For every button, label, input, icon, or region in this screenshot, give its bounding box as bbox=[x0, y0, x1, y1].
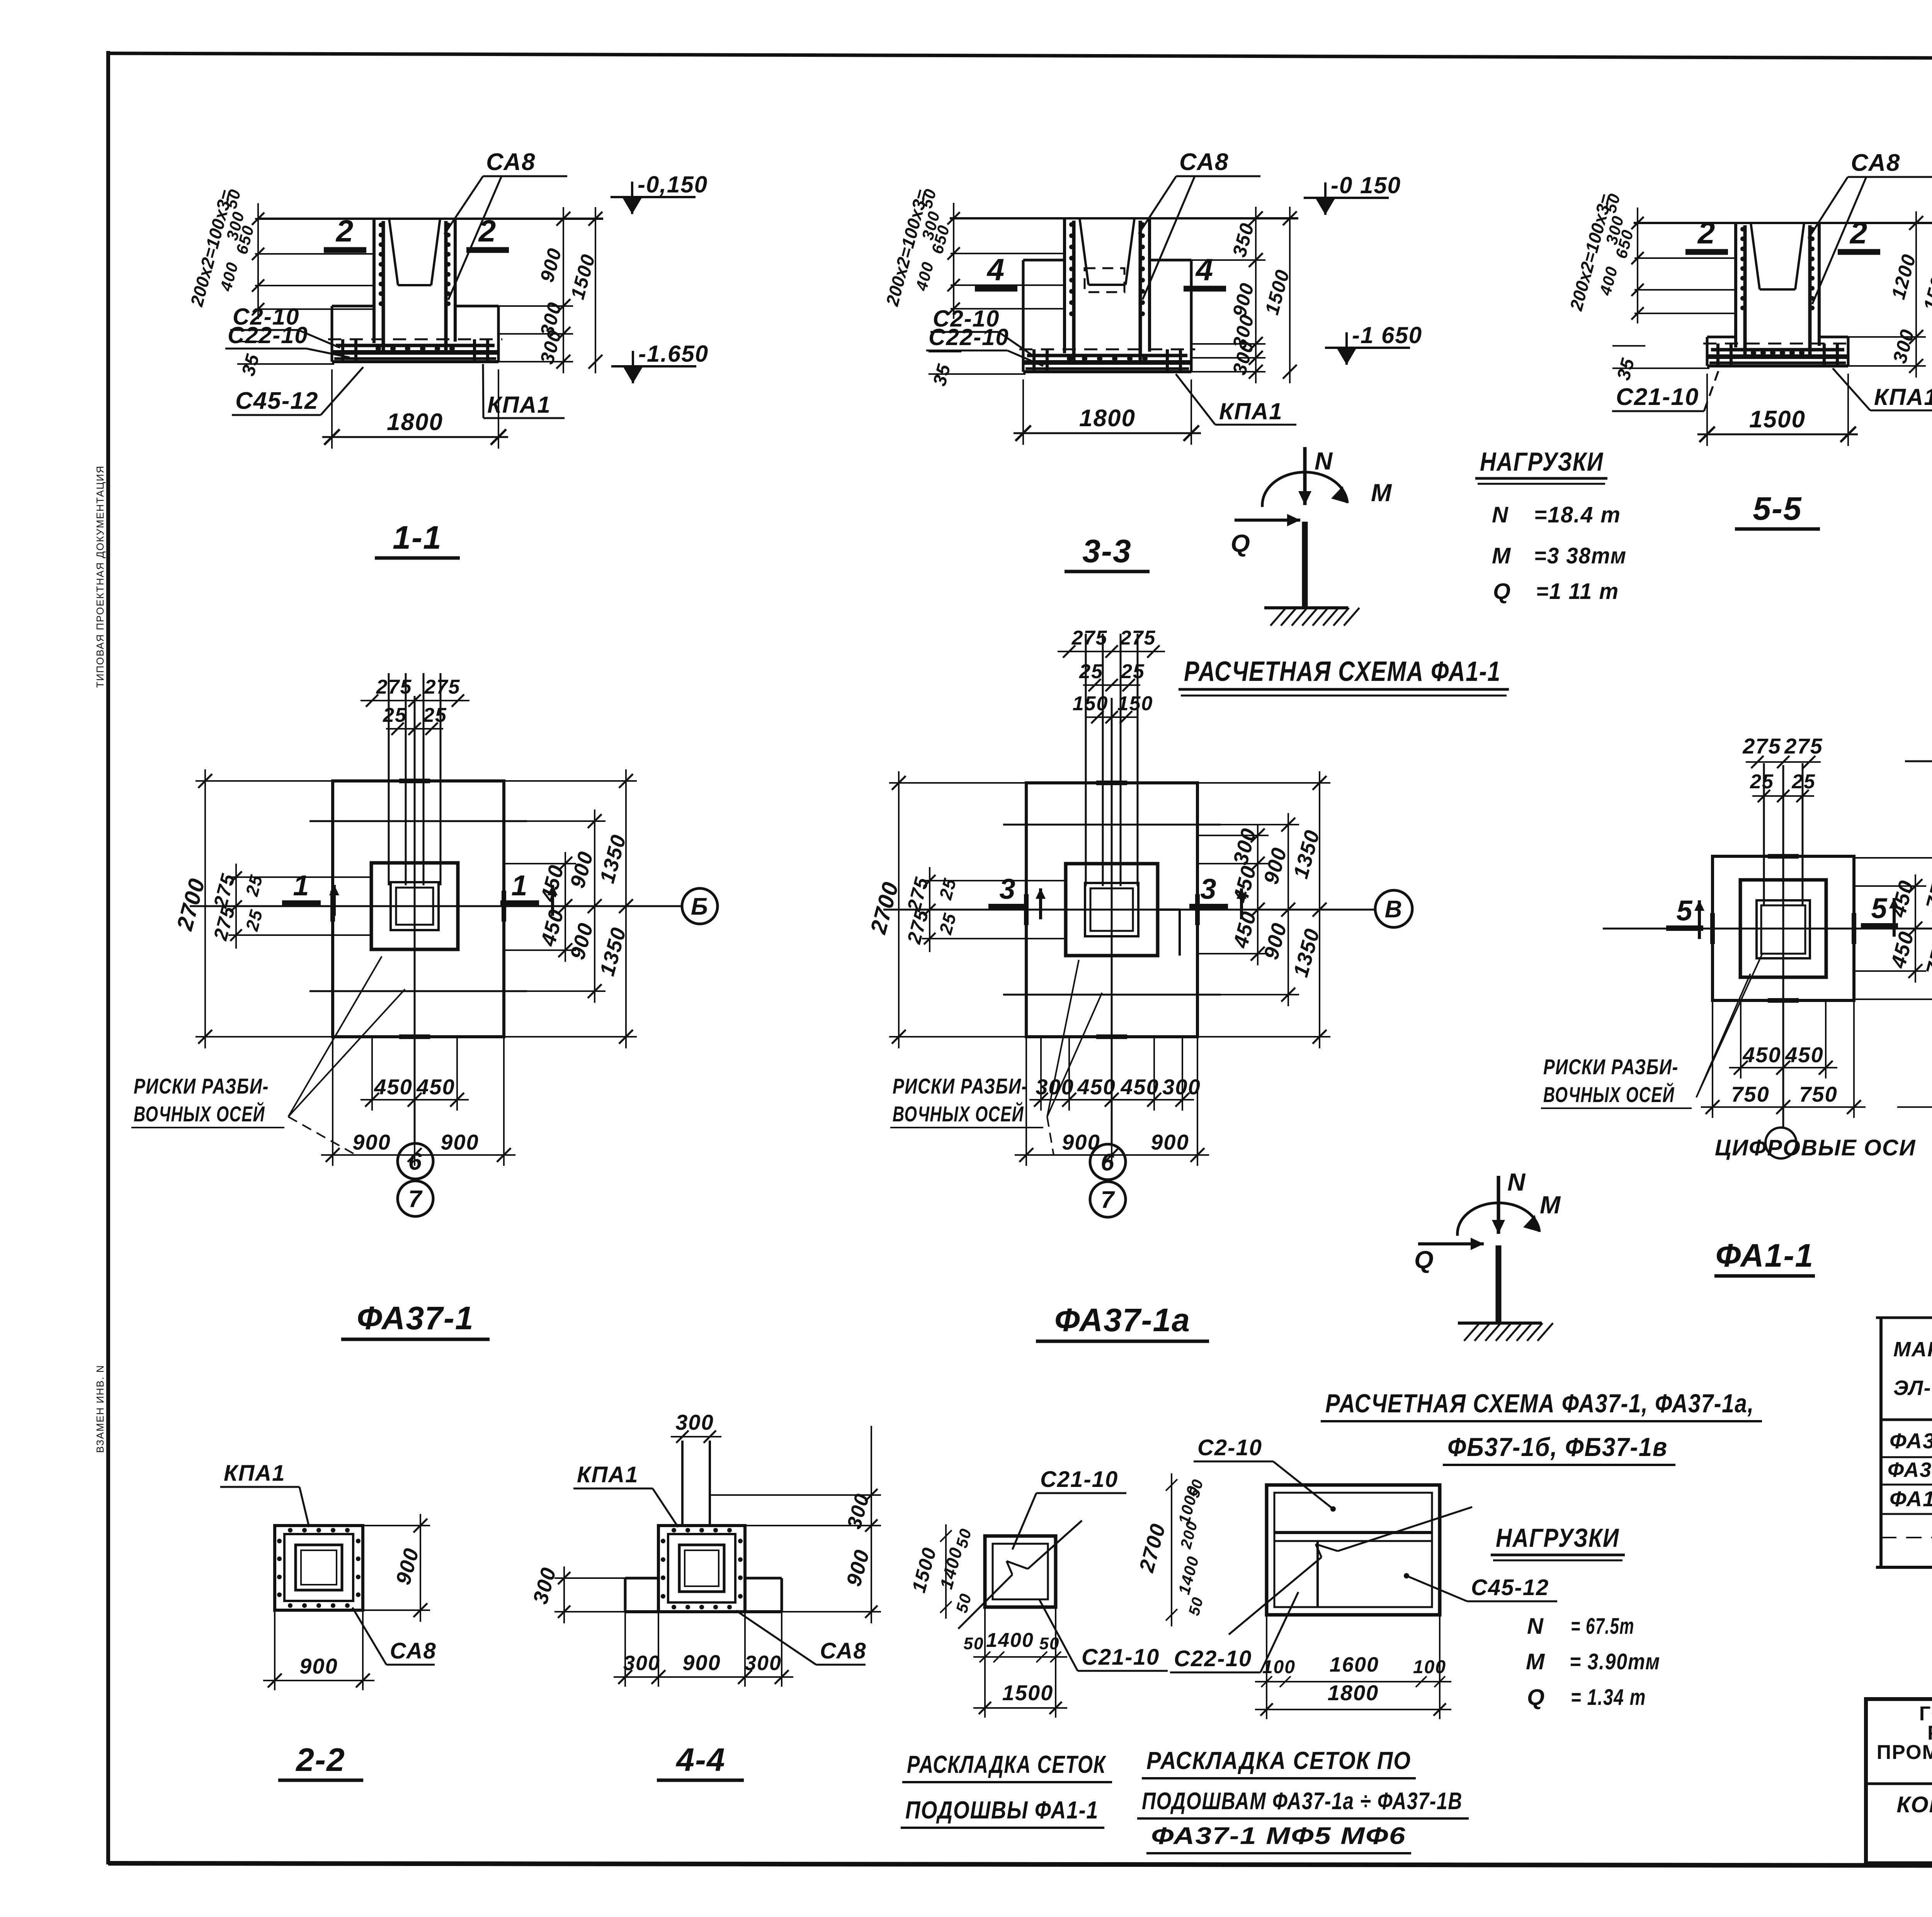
svg-text:1800: 1800 bbox=[1328, 1681, 1379, 1705]
break diagonal bbox=[1229, 1557, 1321, 1635]
overall 1500 chain bbox=[595, 207, 596, 373]
sheet frame left border bbox=[106, 51, 110, 1864]
svg-text:ФА1-1: ФА1-1 bbox=[1716, 1237, 1814, 1274]
sheet frame top border bbox=[108, 53, 1932, 60]
right dimension chain bbox=[563, 207, 564, 373]
svg-text:25: 25 bbox=[423, 704, 447, 726]
svg-text:3: 3 bbox=[1200, 873, 1217, 905]
svg-text:50: 50 bbox=[1039, 1634, 1060, 1653]
svg-text:-0 150: -0 150 bbox=[1331, 172, 1401, 198]
svg-text:-1.650: -1.650 bbox=[638, 341, 709, 367]
svg-text:300: 300 bbox=[1162, 1075, 1201, 1099]
расход data row lines bbox=[1881, 1456, 1932, 1458]
svg-text:900: 900 bbox=[682, 1650, 721, 1675]
svg-text:1600: 1600 bbox=[1330, 1653, 1379, 1676]
svg-text:N: N bbox=[1492, 502, 1509, 527]
svg-text:4-4: 4-4 bbox=[675, 1742, 725, 1778]
svg-text:РИСКИ РАЗБИ-: РИСКИ РАЗБИ- bbox=[134, 1074, 269, 1098]
socket squares bbox=[1085, 883, 1138, 936]
svg-text:1: 1 bbox=[511, 869, 528, 902]
svg-text:РАСЧЕТНАЯ СХЕМА ФА1-1: РАСЧЕТНАЯ СХЕМА ФА1-1 bbox=[1184, 656, 1501, 687]
overall 1500 chain bbox=[1289, 207, 1291, 383]
svg-text:900: 900 bbox=[1151, 1130, 1189, 1154]
left 2700 chain bbox=[898, 771, 900, 1048]
svg-text:ФБ37-1б, ФБ37-1в: ФБ37-1б, ФБ37-1в bbox=[1447, 1432, 1668, 1462]
axis letter circle bbox=[1375, 890, 1412, 927]
svg-text:ФА1-1: ФА1-1 bbox=[1889, 1487, 1932, 1511]
footing outline bbox=[332, 305, 374, 308]
svg-text:1500: 1500 bbox=[1002, 1681, 1054, 1705]
svg-text:1500: 1500 bbox=[1749, 406, 1806, 433]
left 275 dims bbox=[929, 867, 930, 952]
svg-text:-0,150: -0,150 bbox=[638, 172, 708, 197]
load diagram column bbox=[1302, 522, 1308, 608]
svg-text:РАСКЛАДКА СЕТОК: РАСКЛАДКА СЕТОК bbox=[907, 1750, 1106, 1778]
РАСКЛАДКА small square ФА1-1 bbox=[985, 1536, 1056, 1607]
svg-text:М: М bbox=[1492, 543, 1511, 568]
plan outer square bbox=[1713, 856, 1854, 1000]
svg-text:N: N bbox=[1527, 1614, 1544, 1639]
svg-text:ЭЛ-ТА: ЭЛ-ТА bbox=[1893, 1376, 1932, 1400]
anchor bars СА8 bbox=[1743, 225, 1747, 357]
bottom mats С2-10 С22-10 С45-12 bbox=[336, 344, 495, 347]
axis circle 6 bbox=[398, 1143, 433, 1179]
svg-text:25: 25 bbox=[1121, 660, 1145, 683]
svg-text:ФА37-1 МФ5 МФ6: ФА37-1 МФ5 МФ6 bbox=[1151, 1823, 1406, 1849]
axis circle 7 bbox=[1090, 1182, 1126, 1217]
top level line bbox=[259, 218, 603, 220]
svg-text:= 67.5т: = 67.5т bbox=[1571, 1614, 1634, 1639]
svg-text:=1 11 т: =1 11 т bbox=[1536, 579, 1619, 604]
расход table columns bbox=[1880, 1318, 1882, 1567]
3-3 dashed pocket bbox=[1085, 268, 1124, 292]
svg-text:С45-12: С45-12 bbox=[1471, 1575, 1549, 1600]
column outer walls bbox=[1734, 223, 1737, 347]
svg-text:КПА1: КПА1 bbox=[224, 1461, 286, 1486]
load diagram N arrow bbox=[1497, 1176, 1500, 1234]
rebar dots bbox=[379, 223, 383, 227]
svg-text:ФА37-1: ФА37-1 bbox=[1889, 1429, 1932, 1453]
svg-text:3-3: 3-3 bbox=[1082, 533, 1131, 569]
svg-text:КПА1: КПА1 bbox=[1219, 398, 1283, 424]
svg-text:КПА1: КПА1 bbox=[1874, 384, 1932, 410]
svg-text:ФА37-1а: ФА37-1а bbox=[1888, 1458, 1932, 1482]
svg-text:25: 25 bbox=[1750, 771, 1774, 793]
4-4 base step bbox=[625, 1577, 658, 1580]
socket squares bbox=[1757, 900, 1810, 958]
dashed level line bbox=[1019, 349, 1195, 350]
svg-text:ПОДОШВАМ ФА37-1а ÷ ФА37-1В: ПОДОШВАМ ФА37-1а ÷ ФА37-1В bbox=[1142, 1788, 1463, 1815]
load diagram M arc bbox=[1458, 1203, 1539, 1236]
bottom dimension chains bbox=[1029, 1099, 1194, 1101]
svg-text:M: M bbox=[1540, 1191, 1561, 1219]
load diagram column bbox=[1496, 1245, 1502, 1323]
mats divider bbox=[1274, 1531, 1432, 1534]
svg-text:С21-10: С21-10 bbox=[1040, 1467, 1118, 1492]
right dimension chains bbox=[565, 852, 566, 962]
title block frame bbox=[1866, 1699, 1932, 1863]
top level line bbox=[1634, 222, 1932, 224]
svg-text:450: 450 bbox=[1785, 1043, 1823, 1067]
pedestal square bbox=[1066, 864, 1158, 956]
svg-text:5: 5 bbox=[1871, 892, 1888, 924]
rebar dots bbox=[1740, 227, 1745, 231]
svg-text:НАГРУЗКИ: НАГРУЗКИ bbox=[1480, 447, 1604, 476]
load diagram ground bbox=[1264, 606, 1348, 609]
svg-text:300: 300 bbox=[745, 1652, 782, 1675]
mat end КПА1 frame marks bbox=[341, 339, 344, 360]
цифровые оси circle + label bbox=[1765, 1128, 1796, 1158]
svg-text:СА8: СА8 bbox=[390, 1638, 437, 1664]
horizontal axis bbox=[190, 905, 682, 907]
svg-text:ВОЧНЫХ ОСЕЙ: ВОЧНЫХ ОСЕЙ bbox=[893, 1102, 1024, 1126]
footing step horizontals bbox=[310, 820, 527, 822]
bottom dimension chains bbox=[361, 1099, 469, 1101]
svg-text:4: 4 bbox=[986, 252, 1005, 287]
svg-text:Q: Q bbox=[1527, 1685, 1545, 1710]
axis risk ticks bbox=[1710, 913, 1715, 944]
footing step horizontals bbox=[1003, 824, 1221, 826]
footing outline bbox=[1023, 259, 1065, 262]
КПА1 frame 4-4 bbox=[658, 1526, 745, 1612]
column outer walls bbox=[1063, 218, 1066, 353]
footing outline bbox=[1707, 336, 1736, 338]
svg-text:2: 2 bbox=[1849, 216, 1868, 250]
top level line bbox=[950, 217, 1298, 219]
2-2 right dim 900 bbox=[420, 1514, 421, 1622]
svg-text:С22-10: С22-10 bbox=[228, 322, 308, 348]
svg-text:ВЗАМЕН ИНВ. N: ВЗАМЕН ИНВ. N bbox=[94, 1364, 106, 1453]
svg-text:3: 3 bbox=[999, 873, 1016, 905]
vertical axis bbox=[1111, 698, 1113, 1144]
load diagram M arc bbox=[1262, 472, 1347, 507]
rebar dots bbox=[1069, 222, 1074, 227]
расход table frame bbox=[1879, 1318, 1883, 1567]
svg-text:7: 7 bbox=[408, 1186, 423, 1213]
anchor bolt lines bbox=[1085, 634, 1087, 886]
anchor bars СА8 bbox=[382, 221, 385, 352]
svg-text:300: 300 bbox=[675, 1410, 714, 1434]
svg-text:=18.4 т: =18.4 т bbox=[1534, 502, 1621, 527]
svg-text:1800: 1800 bbox=[1079, 405, 1136, 432]
load diagram Q arrow bbox=[1418, 1242, 1484, 1245]
socket squares bbox=[391, 882, 439, 930]
svg-text:300: 300 bbox=[623, 1652, 660, 1675]
plan outer square bbox=[333, 781, 504, 1037]
horizontal axis bbox=[1603, 928, 1932, 930]
left 2700 chain bbox=[204, 769, 206, 1048]
svg-text:1800: 1800 bbox=[387, 409, 443, 435]
axis risk ticks bbox=[330, 891, 335, 922]
mat end КПА1 frame marks bbox=[1032, 349, 1036, 370]
svg-text:С2-10: С2-10 bbox=[1197, 1435, 1262, 1460]
svg-text:900: 900 bbox=[299, 1654, 338, 1678]
svg-text:450: 450 bbox=[1120, 1075, 1159, 1099]
svg-text:РИСКИ РАЗБИ-: РИСКИ РАЗБИ- bbox=[1543, 1055, 1679, 1079]
svg-text:С22-10: С22-10 bbox=[1174, 1646, 1252, 1671]
svg-text:275: 275 bbox=[1784, 734, 1823, 758]
svg-text:-1 650: -1 650 bbox=[1352, 322, 1422, 348]
svg-text:450: 450 bbox=[1742, 1043, 1781, 1067]
svg-text:В: В bbox=[1385, 896, 1403, 923]
svg-text:900: 900 bbox=[440, 1130, 479, 1154]
svg-text:НАГРУЗКИ: НАГРУЗКИ bbox=[1496, 1523, 1619, 1553]
column socket inner walls bbox=[389, 219, 398, 285]
svg-text:5: 5 bbox=[1676, 895, 1693, 927]
right dimension chain bbox=[1255, 207, 1257, 383]
load diagram ground bbox=[1458, 1322, 1542, 1325]
svg-text:ФА37-1: ФА37-1 bbox=[357, 1300, 474, 1336]
svg-text:ПРОМСТРОЙНИИПРОЕКТ: ПРОМСТРОЙНИИПРОЕКТ bbox=[1877, 1741, 1932, 1764]
svg-text:2: 2 bbox=[1697, 216, 1716, 250]
svg-text:=3 38тм: =3 38тм bbox=[1534, 543, 1627, 568]
svg-text:С21-10: С21-10 bbox=[1616, 384, 1699, 410]
svg-text:275: 275 bbox=[376, 676, 412, 698]
svg-text:5-5: 5-5 bbox=[1753, 490, 1802, 527]
column socket inner walls bbox=[1080, 218, 1088, 285]
4-4 column above bbox=[681, 1441, 684, 1526]
svg-text:Q: Q bbox=[1414, 1246, 1434, 1274]
svg-text:100: 100 bbox=[1413, 1657, 1446, 1677]
load diagram Q arrow bbox=[1235, 519, 1300, 522]
svg-text:СА8: СА8 bbox=[486, 149, 536, 175]
svg-text:ПОДОШВЫ ФА1-1: ПОДОШВЫ ФА1-1 bbox=[905, 1796, 1099, 1824]
bottom mats С2-10 С22-10 С45-12 bbox=[1711, 348, 1844, 352]
svg-text:150: 150 bbox=[1117, 692, 1153, 715]
svg-text:= 1.34 т: = 1.34 т bbox=[1571, 1685, 1646, 1710]
axis risk ticks bbox=[1024, 894, 1029, 925]
svg-text:1: 1 bbox=[293, 869, 310, 902]
svg-text:Q: Q bbox=[1493, 579, 1511, 604]
svg-text:275: 275 bbox=[1071, 627, 1108, 649]
sheet frame bottom border bbox=[108, 1863, 1932, 1866]
svg-text:КОМПРЕССОРНАЯ: КОМПРЕССОРНАЯ bbox=[1896, 1792, 1932, 1817]
4-4 right dims bbox=[871, 1426, 872, 1623]
axis circle Г bbox=[1905, 760, 1932, 762]
anchor bars СА8 bbox=[1072, 221, 1076, 362]
svg-text:6: 6 bbox=[408, 1148, 422, 1175]
dashed level line bbox=[328, 338, 502, 340]
svg-text:750: 750 bbox=[1731, 1082, 1769, 1106]
vertical axis bbox=[414, 696, 416, 1143]
svg-text:ЦИФРОВЫЕ ОСИ: ЦИФРОВЫЕ ОСИ bbox=[1715, 1135, 1916, 1160]
column socket inner walls bbox=[1751, 223, 1760, 289]
svg-text:ТИПОВАЯ ПРОЕКТНАЯ ДОКУМЕНТАЦИЯ: ТИПОВАЯ ПРОЕКТНАЯ ДОКУМЕНТАЦИЯ bbox=[94, 465, 106, 688]
anchor bolt lines bbox=[388, 673, 390, 885]
right dimension chains bbox=[1257, 824, 1259, 965]
svg-text:ВОЧНЫХ ОСЕЙ: ВОЧНЫХ ОСЕЙ bbox=[1543, 1082, 1675, 1107]
svg-text:С22-10: С22-10 bbox=[929, 324, 1009, 350]
svg-text:M: M bbox=[1371, 479, 1392, 507]
mat end КПА1 frame marks bbox=[1716, 344, 1719, 364]
svg-text:РАСКЛАДКА СЕТОК ПО: РАСКЛАДКА СЕТОК ПО bbox=[1146, 1747, 1411, 1774]
svg-text:450: 450 bbox=[1077, 1075, 1116, 1099]
svg-text:50: 50 bbox=[964, 1634, 984, 1653]
left 275 dims bbox=[235, 864, 237, 949]
svg-text:Q: Q bbox=[1231, 529, 1251, 557]
vertical axis bbox=[1782, 765, 1784, 1128]
axis circle 6 bbox=[1090, 1144, 1126, 1180]
svg-text:РАСЧЕТНАЯ СХЕМА ФА37-1, ФА37-1: РАСЧЕТНАЯ СХЕМА ФА37-1, ФА37-1а, bbox=[1325, 1389, 1754, 1418]
svg-text:275: 275 bbox=[1742, 734, 1781, 758]
КПА1 frame 2-2 bbox=[275, 1526, 363, 1610]
2-2 bottom dim 900 bbox=[263, 1680, 374, 1681]
svg-text:7: 7 bbox=[1101, 1187, 1115, 1213]
svg-text:900: 900 bbox=[352, 1130, 391, 1154]
bottom width dimension bbox=[331, 369, 333, 449]
dashed level line bbox=[1703, 343, 1852, 345]
svg-text:1400: 1400 bbox=[986, 1629, 1034, 1652]
break line bbox=[958, 1575, 1012, 1629]
svg-text:275: 275 bbox=[1120, 627, 1156, 649]
svg-text:С45-12: С45-12 bbox=[235, 388, 318, 414]
svg-text:450: 450 bbox=[374, 1075, 412, 1099]
svg-text:М: М bbox=[1526, 1649, 1545, 1674]
svg-text:КПА1: КПА1 bbox=[577, 1462, 639, 1487]
svg-text:2-2: 2-2 bbox=[295, 1742, 345, 1778]
right dimension chain bbox=[1915, 211, 1917, 378]
svg-text:6: 6 bbox=[1101, 1149, 1115, 1176]
horizontal axis bbox=[883, 909, 1375, 911]
svg-text:N: N bbox=[1507, 1168, 1526, 1196]
column outer walls bbox=[372, 219, 376, 343]
bottom mats С2-10 С22-10 С45-12 bbox=[1027, 354, 1187, 357]
svg-text:СА8: СА8 bbox=[1179, 149, 1229, 175]
svg-text:750: 750 bbox=[1799, 1082, 1837, 1106]
load diagram N arrow bbox=[1303, 447, 1307, 505]
svg-text:СА8: СА8 bbox=[1851, 150, 1901, 176]
РАСКЛАДКА large rect ФА37-1а bbox=[1267, 1485, 1440, 1615]
pedestal square bbox=[1740, 880, 1826, 977]
svg-text:ФА37-1а: ФА37-1а bbox=[1054, 1302, 1190, 1338]
svg-text:РИСКИ РАЗБИ-: РИСКИ РАЗБИ- bbox=[893, 1074, 1028, 1098]
axis letter circle bbox=[682, 888, 718, 924]
bottom width dimension bbox=[1022, 379, 1024, 445]
svg-text:МАРКА: МАРКА bbox=[1893, 1338, 1932, 1361]
svg-text:N: N bbox=[1315, 447, 1333, 475]
svg-text:СА8: СА8 bbox=[820, 1638, 867, 1664]
svg-text:Б: Б bbox=[691, 893, 709, 920]
svg-text:450: 450 bbox=[416, 1075, 455, 1099]
anchor bolt lines bbox=[1763, 763, 1765, 905]
svg-text:4: 4 bbox=[1195, 252, 1214, 287]
svg-text:25: 25 bbox=[1791, 771, 1816, 793]
svg-text:КПА1: КПА1 bbox=[487, 392, 551, 418]
svg-text:ВОЧНЫХ ОСЕЙ: ВОЧНЫХ ОСЕЙ bbox=[134, 1102, 265, 1126]
svg-text:= 3.90тм: = 3.90тм bbox=[1570, 1649, 1660, 1674]
bottom width dimension bbox=[1706, 374, 1708, 446]
plan outer square bbox=[1026, 783, 1197, 1037]
4-4 bottom dims bbox=[614, 1676, 793, 1678]
pedestal square bbox=[371, 863, 458, 949]
svg-text:1-1: 1-1 bbox=[393, 519, 442, 556]
axis circle 7 bbox=[398, 1181, 433, 1216]
right dimension chains bbox=[1915, 874, 1916, 983]
svg-text:275: 275 bbox=[424, 676, 461, 698]
pedestal step plan 2 bbox=[1158, 908, 1180, 911]
svg-text:С21-10: С21-10 bbox=[1082, 1645, 1160, 1670]
bottom dimension chains bbox=[1729, 1067, 1837, 1068]
title block left separator bbox=[1866, 1783, 1932, 1785]
